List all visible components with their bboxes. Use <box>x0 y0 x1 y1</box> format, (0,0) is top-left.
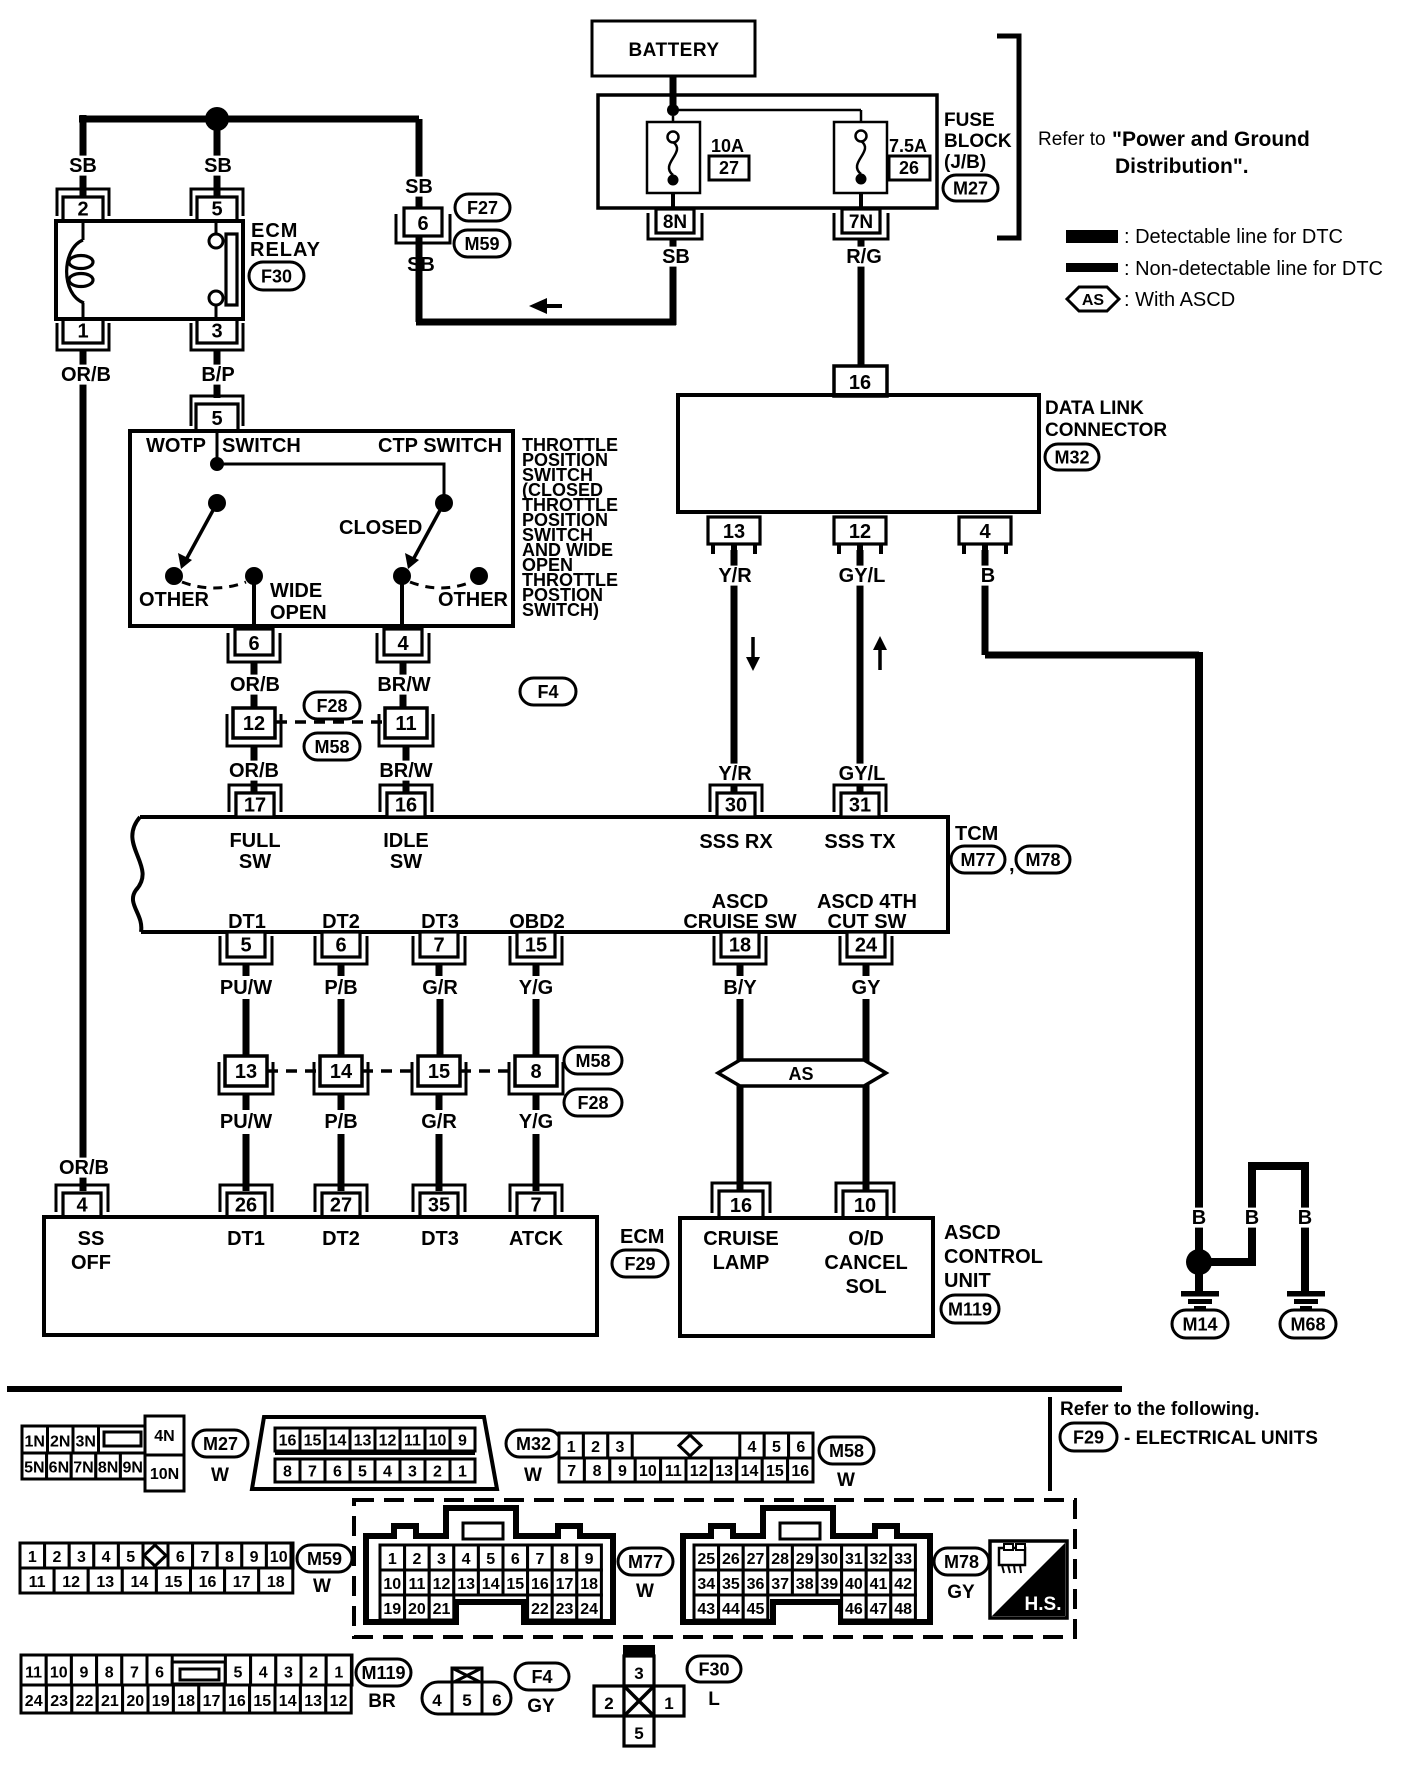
svg-text:6: 6 <box>248 633 259 655</box>
svg-text:Y/R: Y/R <box>718 565 752 587</box>
svg-text:OTHER: OTHER <box>139 589 210 611</box>
svg-text:14: 14 <box>482 1576 500 1593</box>
svg-text:12: 12 <box>243 713 265 735</box>
svg-text:F27: F27 <box>467 198 498 218</box>
svg-text:11: 11 <box>404 1432 421 1449</box>
svg-text:GY: GY <box>947 1582 975 1603</box>
svg-text:5: 5 <box>234 1665 243 1682</box>
svg-text:7: 7 <box>433 935 444 957</box>
svg-text:5: 5 <box>211 408 222 430</box>
svg-text:Refer to: Refer to <box>1038 129 1106 150</box>
svg-text:14: 14 <box>279 1693 297 1710</box>
svg-text:SB: SB <box>204 155 232 177</box>
svg-text:10A: 10A <box>711 136 744 156</box>
svg-text:4: 4 <box>748 1439 757 1456</box>
svg-text:ATCK: ATCK <box>509 1228 564 1250</box>
svg-text:W: W <box>524 1465 542 1486</box>
svg-text:BATTERY: BATTERY <box>628 40 719 61</box>
svg-text:24: 24 <box>580 1601 598 1618</box>
svg-text:30: 30 <box>725 795 747 817</box>
svg-text:M78: M78 <box>1025 850 1060 870</box>
svg-text:F30: F30 <box>698 1659 729 1679</box>
svg-text:M58: M58 <box>829 1441 864 1461</box>
svg-text:17: 17 <box>233 1574 251 1591</box>
svg-text:26: 26 <box>235 1195 257 1217</box>
svg-text:9: 9 <box>250 1549 259 1566</box>
svg-text:17: 17 <box>244 795 266 817</box>
svg-text:SS: SS <box>78 1228 105 1250</box>
svg-text:18: 18 <box>580 1576 598 1593</box>
svg-text:21: 21 <box>433 1601 451 1618</box>
svg-text:18: 18 <box>177 1693 195 1710</box>
svg-text:F29: F29 <box>624 1254 655 1274</box>
svg-text:BR: BR <box>368 1691 396 1712</box>
svg-text:2: 2 <box>604 1694 613 1713</box>
svg-text:34: 34 <box>697 1576 715 1593</box>
svg-text:15: 15 <box>428 1061 450 1083</box>
svg-text:1: 1 <box>664 1694 673 1713</box>
svg-text:Y/G: Y/G <box>519 977 553 999</box>
svg-text:11: 11 <box>395 713 416 735</box>
svg-text:16: 16 <box>228 1693 246 1710</box>
svg-text:LAMP: LAMP <box>713 1252 770 1274</box>
svg-text:F29: F29 <box>1073 1427 1104 1447</box>
svg-text:44: 44 <box>722 1601 740 1618</box>
svg-text:F4: F4 <box>537 682 558 702</box>
svg-text:13: 13 <box>723 521 745 543</box>
svg-text:8: 8 <box>560 1551 569 1568</box>
svg-text:2: 2 <box>309 1665 318 1682</box>
svg-text:16: 16 <box>395 795 417 817</box>
svg-text:ASCD: ASCD <box>944 1222 1001 1244</box>
svg-text:Y/R: Y/R <box>718 763 752 785</box>
svg-text:SB: SB <box>69 155 97 177</box>
svg-text:3: 3 <box>77 1549 86 1566</box>
svg-text:15: 15 <box>525 935 547 957</box>
svg-text:19: 19 <box>152 1693 170 1710</box>
svg-text:SSS TX: SSS TX <box>824 831 896 853</box>
svg-text:IDLE: IDLE <box>383 830 429 852</box>
svg-text:20: 20 <box>408 1601 426 1618</box>
svg-text:14: 14 <box>130 1574 148 1591</box>
svg-text:(J/B): (J/B) <box>944 152 986 173</box>
svg-text:8N: 8N <box>98 1460 118 1477</box>
svg-text:12: 12 <box>849 521 871 543</box>
svg-text:13: 13 <box>96 1574 114 1591</box>
svg-text:1: 1 <box>334 1665 343 1682</box>
svg-text:27: 27 <box>747 1551 765 1568</box>
svg-text:9: 9 <box>458 1432 467 1449</box>
svg-text:G/R: G/R <box>421 1111 457 1133</box>
svg-text:4: 4 <box>432 1691 442 1710</box>
svg-text:6: 6 <box>176 1549 185 1566</box>
svg-text:DT3: DT3 <box>421 1228 459 1250</box>
svg-text:12: 12 <box>379 1432 397 1449</box>
svg-text:W: W <box>837 1470 855 1491</box>
svg-text:35: 35 <box>722 1576 740 1593</box>
svg-text:7.5A: 7.5A <box>889 136 927 156</box>
svg-text:TCM: TCM <box>955 823 998 845</box>
svg-text:RELAY: RELAY <box>250 239 321 261</box>
svg-text:43: 43 <box>697 1601 715 1618</box>
svg-text:22: 22 <box>76 1693 94 1710</box>
svg-text:GY: GY <box>852 977 882 999</box>
svg-text:15: 15 <box>766 1463 784 1480</box>
svg-text:F4: F4 <box>531 1667 552 1687</box>
svg-text:16: 16 <box>531 1576 549 1593</box>
svg-text:33: 33 <box>894 1551 912 1568</box>
svg-text:27: 27 <box>330 1195 352 1217</box>
svg-text:2: 2 <box>52 1549 61 1566</box>
svg-text:7: 7 <box>535 1551 544 1568</box>
svg-text:2: 2 <box>591 1439 600 1456</box>
svg-text:6: 6 <box>796 1439 805 1456</box>
svg-text:23: 23 <box>556 1601 574 1618</box>
svg-text:2: 2 <box>433 1463 442 1480</box>
svg-text:3: 3 <box>408 1463 417 1480</box>
svg-text:10: 10 <box>639 1463 657 1480</box>
svg-text:24: 24 <box>25 1693 43 1710</box>
svg-text:Distribution".: Distribution". <box>1115 155 1249 178</box>
svg-text:DATA LINK: DATA LINK <box>1045 398 1144 419</box>
svg-text:WOTP: WOTP <box>146 435 206 457</box>
svg-text:7: 7 <box>567 1463 576 1480</box>
svg-text:: With ASCD: : With ASCD <box>1124 289 1235 311</box>
svg-text:11: 11 <box>29 1574 46 1591</box>
svg-text:9: 9 <box>618 1463 627 1480</box>
svg-text:OR/B: OR/B <box>229 760 279 782</box>
svg-text:46: 46 <box>845 1601 863 1618</box>
svg-text:36: 36 <box>747 1576 765 1593</box>
svg-text:DT2: DT2 <box>322 911 360 933</box>
svg-text:18: 18 <box>267 1574 285 1591</box>
svg-text:13: 13 <box>235 1061 257 1083</box>
svg-text:7N: 7N <box>73 1460 93 1477</box>
svg-text:,: , <box>1009 854 1015 876</box>
svg-text:B/Y: B/Y <box>723 977 757 999</box>
svg-text:26: 26 <box>722 1551 740 1568</box>
svg-text:31: 31 <box>849 795 871 817</box>
svg-text:5: 5 <box>486 1551 495 1568</box>
svg-text:R/G: R/G <box>846 246 882 268</box>
svg-text:12: 12 <box>62 1574 80 1591</box>
svg-text:M14: M14 <box>1182 1314 1217 1334</box>
svg-text:: Detectable line for DTC: : Detectable line for DTC <box>1124 226 1343 248</box>
svg-text:27: 27 <box>719 158 739 178</box>
svg-text:13: 13 <box>457 1576 475 1593</box>
svg-text:8: 8 <box>530 1061 541 1083</box>
svg-text:9N: 9N <box>122 1460 142 1477</box>
svg-text:SB: SB <box>662 246 690 268</box>
svg-text:7: 7 <box>308 1463 317 1480</box>
svg-text:BR/W: BR/W <box>377 674 430 696</box>
svg-text:OR/B: OR/B <box>230 674 280 696</box>
svg-text:SWITCH): SWITCH) <box>522 600 599 620</box>
svg-text:CONNECTOR: CONNECTOR <box>1045 420 1167 441</box>
svg-text:2: 2 <box>412 1551 421 1568</box>
svg-text:19: 19 <box>383 1601 401 1618</box>
svg-text:6: 6 <box>155 1665 164 1682</box>
svg-text:M77: M77 <box>960 850 995 870</box>
svg-text:GY/L: GY/L <box>839 763 886 785</box>
svg-text:12: 12 <box>433 1576 451 1593</box>
svg-text:42: 42 <box>894 1576 912 1593</box>
svg-text:- ELECTRICAL UNITS: - ELECTRICAL UNITS <box>1124 1428 1318 1449</box>
svg-text:12: 12 <box>330 1693 348 1710</box>
svg-text:26: 26 <box>899 158 919 178</box>
svg-text:L: L <box>708 1689 720 1710</box>
svg-text:Y/G: Y/G <box>519 1111 553 1133</box>
svg-text:M58: M58 <box>575 1051 610 1071</box>
svg-text:8N: 8N <box>663 212 687 233</box>
svg-text:UNIT: UNIT <box>944 1270 991 1292</box>
svg-text:20: 20 <box>126 1693 144 1710</box>
svg-text:M32: M32 <box>516 1434 551 1454</box>
svg-text:B: B <box>981 565 995 587</box>
svg-text:25: 25 <box>697 1551 715 1568</box>
svg-text:3: 3 <box>616 1439 625 1456</box>
svg-text:5: 5 <box>772 1439 781 1456</box>
svg-text:10: 10 <box>270 1549 288 1566</box>
svg-text:1: 1 <box>28 1549 37 1566</box>
svg-text:35: 35 <box>428 1195 450 1217</box>
svg-text:PU/W: PU/W <box>220 1111 272 1133</box>
svg-text:ECM: ECM <box>620 1226 664 1248</box>
svg-text:3N: 3N <box>76 1433 96 1450</box>
svg-text:6: 6 <box>492 1691 501 1710</box>
svg-text:5: 5 <box>358 1463 367 1480</box>
svg-text:11: 11 <box>25 1665 42 1682</box>
svg-text:1: 1 <box>388 1551 397 1568</box>
svg-text:32: 32 <box>870 1551 888 1568</box>
svg-text:DT3: DT3 <box>421 911 459 933</box>
svg-text:5: 5 <box>126 1549 135 1566</box>
svg-text:CLOSED: CLOSED <box>339 517 422 539</box>
svg-text:GY: GY <box>527 1696 555 1717</box>
svg-text:7: 7 <box>530 1195 541 1217</box>
svg-text:10: 10 <box>854 1195 876 1217</box>
svg-text:B: B <box>1298 1207 1312 1229</box>
svg-text:SW: SW <box>239 851 271 873</box>
svg-text:47: 47 <box>870 1601 888 1618</box>
svg-text:"Power and Ground: "Power and Ground <box>1112 128 1310 151</box>
svg-text:F28: F28 <box>316 696 347 716</box>
svg-text:11: 11 <box>408 1576 425 1593</box>
svg-text:4N: 4N <box>154 1428 174 1445</box>
svg-text:OFF: OFF <box>71 1252 111 1274</box>
svg-text:G/R: G/R <box>422 977 458 999</box>
svg-text:24: 24 <box>855 935 878 957</box>
svg-text:3: 3 <box>437 1551 446 1568</box>
svg-text:8: 8 <box>225 1549 234 1566</box>
svg-text:SOL: SOL <box>845 1276 886 1298</box>
svg-text:M119: M119 <box>948 1299 992 1319</box>
svg-text:ASCD: ASCD <box>712 891 769 913</box>
svg-text:CRUISE SW: CRUISE SW <box>683 911 796 933</box>
svg-text:1N: 1N <box>25 1433 45 1450</box>
svg-text:14: 14 <box>330 1061 353 1083</box>
svg-text:FUSE: FUSE <box>944 110 995 131</box>
svg-text:38: 38 <box>796 1576 814 1593</box>
svg-text:M78: M78 <box>944 1552 979 1572</box>
svg-text:16: 16 <box>849 372 871 394</box>
svg-text:: Non-detectable line for DTC: : Non-detectable line for DTC <box>1124 258 1383 280</box>
svg-text:GY/L: GY/L <box>839 565 886 587</box>
svg-text:DT2: DT2 <box>322 1228 360 1250</box>
svg-text:4: 4 <box>102 1549 111 1566</box>
svg-text:15: 15 <box>253 1693 271 1710</box>
svg-text:H.S.: H.S. <box>1025 1594 1062 1615</box>
svg-text:WIDE: WIDE <box>270 580 322 602</box>
svg-text:10N: 10N <box>150 1466 179 1483</box>
svg-text:13: 13 <box>304 1693 322 1710</box>
svg-text:7: 7 <box>130 1665 139 1682</box>
svg-text:1: 1 <box>567 1439 576 1456</box>
svg-text:M27: M27 <box>203 1434 238 1454</box>
svg-text:17: 17 <box>203 1693 221 1710</box>
svg-text:6N: 6N <box>49 1460 69 1477</box>
svg-text:3: 3 <box>211 321 222 343</box>
svg-text:13: 13 <box>715 1463 733 1480</box>
svg-text:M119: M119 <box>361 1663 405 1683</box>
svg-text:14: 14 <box>741 1463 759 1480</box>
svg-text:3: 3 <box>284 1665 293 1682</box>
svg-text:29: 29 <box>796 1551 814 1568</box>
svg-text:2N: 2N <box>50 1433 70 1450</box>
svg-text:8: 8 <box>105 1665 114 1682</box>
svg-text:17: 17 <box>556 1576 574 1593</box>
svg-text:40: 40 <box>845 1576 863 1593</box>
svg-text:CUT SW: CUT SW <box>828 911 907 933</box>
svg-text:7N: 7N <box>849 212 873 233</box>
svg-text:O/D: O/D <box>848 1228 884 1250</box>
svg-text:8: 8 <box>283 1463 292 1480</box>
svg-text:5: 5 <box>211 199 222 221</box>
svg-text:14: 14 <box>329 1432 347 1449</box>
svg-text:5: 5 <box>462 1691 471 1710</box>
svg-text:6: 6 <box>417 213 428 235</box>
svg-text:9: 9 <box>585 1551 594 1568</box>
svg-text:OPEN: OPEN <box>270 602 327 624</box>
svg-text:10: 10 <box>50 1665 68 1682</box>
svg-text:B: B <box>1245 1207 1259 1229</box>
svg-text:7: 7 <box>200 1549 209 1566</box>
svg-text:6: 6 <box>333 1463 342 1480</box>
svg-text:W: W <box>211 1465 229 1486</box>
svg-text:48: 48 <box>894 1601 912 1618</box>
svg-text:10: 10 <box>429 1432 447 1449</box>
svg-text:11: 11 <box>665 1463 682 1480</box>
svg-text:OBD2: OBD2 <box>509 911 565 933</box>
svg-text:15: 15 <box>506 1576 524 1593</box>
svg-text:39: 39 <box>820 1576 838 1593</box>
svg-text:4: 4 <box>259 1665 268 1682</box>
svg-text:4: 4 <box>462 1551 471 1568</box>
svg-text:22: 22 <box>531 1601 549 1618</box>
svg-text:OTHER: OTHER <box>438 589 509 611</box>
svg-text:1: 1 <box>77 321 88 343</box>
svg-text:M59: M59 <box>464 234 499 254</box>
svg-text:DT1: DT1 <box>228 911 266 933</box>
svg-text:ASCD 4TH: ASCD 4TH <box>817 891 917 913</box>
svg-text:F28: F28 <box>577 1093 608 1113</box>
svg-text:16: 16 <box>791 1463 809 1480</box>
svg-text:28: 28 <box>771 1551 789 1568</box>
svg-text:CRUISE: CRUISE <box>703 1228 779 1250</box>
svg-text:CONTROL: CONTROL <box>944 1246 1043 1268</box>
svg-text:M58: M58 <box>314 737 349 757</box>
svg-text:2: 2 <box>77 199 88 221</box>
svg-text:5: 5 <box>240 935 251 957</box>
svg-text:10: 10 <box>383 1576 401 1593</box>
svg-text:5: 5 <box>634 1724 643 1743</box>
svg-text:OR/B: OR/B <box>59 1157 109 1179</box>
svg-text:SSS RX: SSS RX <box>699 831 773 853</box>
svg-text:BR/W: BR/W <box>379 760 432 782</box>
svg-text:P/B: P/B <box>324 1111 357 1133</box>
svg-text:PU/W: PU/W <box>220 977 272 999</box>
svg-text:41: 41 <box>870 1576 888 1593</box>
svg-text:FULL: FULL <box>229 830 280 852</box>
svg-text:M32: M32 <box>1054 447 1089 467</box>
svg-text:BLOCK: BLOCK <box>944 131 1012 152</box>
svg-text:M59: M59 <box>307 1549 342 1569</box>
svg-text:15: 15 <box>165 1574 183 1591</box>
svg-text:31: 31 <box>845 1551 863 1568</box>
svg-text:9: 9 <box>80 1665 89 1682</box>
svg-text:CANCEL: CANCEL <box>824 1252 907 1274</box>
svg-text:W: W <box>313 1576 331 1597</box>
svg-text:3: 3 <box>634 1664 643 1683</box>
svg-text:DT1: DT1 <box>227 1228 265 1250</box>
svg-text:M27: M27 <box>953 178 988 198</box>
svg-text:4: 4 <box>979 521 991 543</box>
svg-text:16: 16 <box>279 1432 297 1449</box>
svg-text:4: 4 <box>383 1463 392 1480</box>
svg-text:21: 21 <box>101 1693 119 1710</box>
svg-text:M68: M68 <box>1290 1314 1325 1334</box>
svg-text:AS: AS <box>1082 292 1105 309</box>
svg-text:16: 16 <box>730 1195 752 1217</box>
svg-text:12: 12 <box>690 1463 708 1480</box>
svg-text:SWITCH: SWITCH <box>222 435 301 457</box>
svg-text:B: B <box>1192 1207 1206 1229</box>
svg-text:4: 4 <box>397 633 409 655</box>
svg-text:Refer to the following.: Refer to the following. <box>1060 1399 1260 1420</box>
svg-text:4: 4 <box>76 1195 88 1217</box>
svg-text:B/P: B/P <box>201 364 234 386</box>
svg-text:13: 13 <box>354 1432 372 1449</box>
svg-text:5N: 5N <box>24 1460 44 1477</box>
svg-text:OR/B: OR/B <box>61 364 111 386</box>
svg-text:SB: SB <box>405 176 433 198</box>
svg-text:8: 8 <box>593 1463 602 1480</box>
svg-text:30: 30 <box>820 1551 838 1568</box>
svg-text:AS: AS <box>788 1064 813 1084</box>
svg-text:15: 15 <box>304 1432 322 1449</box>
svg-text:SW: SW <box>390 851 422 873</box>
svg-text:37: 37 <box>771 1576 789 1593</box>
svg-text:F30: F30 <box>261 266 292 286</box>
svg-text:1: 1 <box>458 1463 467 1480</box>
svg-text:45: 45 <box>747 1601 765 1618</box>
svg-text:W: W <box>636 1581 654 1602</box>
svg-text:18: 18 <box>729 935 751 957</box>
svg-text:6: 6 <box>511 1551 520 1568</box>
svg-text:6: 6 <box>335 935 346 957</box>
svg-text:P/B: P/B <box>324 977 357 999</box>
svg-text:M77: M77 <box>628 1552 663 1572</box>
